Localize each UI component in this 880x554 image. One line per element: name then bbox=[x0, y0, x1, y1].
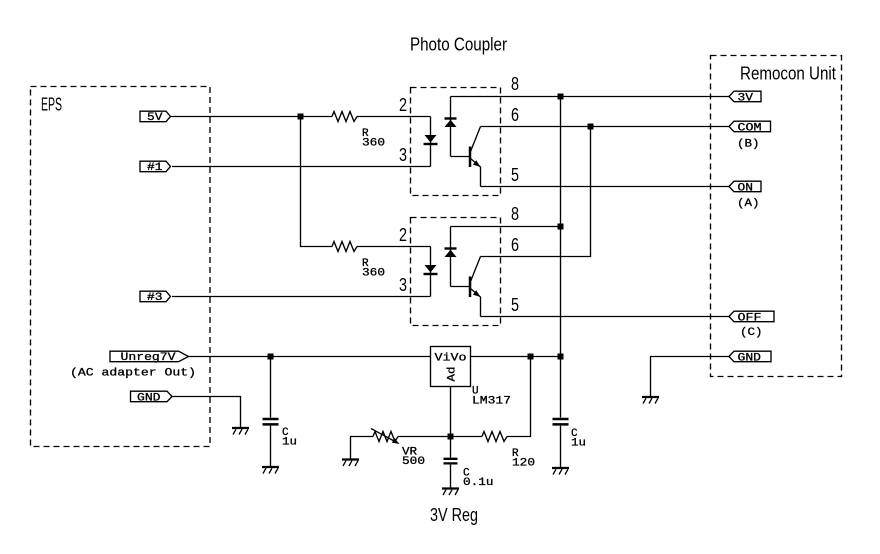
capacitor C1 bbox=[263, 357, 279, 467]
svg-text:(AC adapter Out): (AC adapter Out) bbox=[70, 368, 196, 380]
wire U1 pin6 to COM bbox=[481, 126, 730, 128]
svg-text:5: 5 bbox=[511, 295, 519, 315]
svg-text:ViVo: ViVo bbox=[435, 353, 467, 365]
svg-text:5V: 5V bbox=[147, 112, 163, 124]
wire D1b to Q1 base bbox=[451, 156, 470, 158]
svg-text:#3: #3 bbox=[147, 292, 163, 304]
wire Unreg7V to LM317 Vi bbox=[189, 356, 431, 358]
wire GND Remocon to ground bbox=[651, 357, 730, 397]
svg-text:1u: 1u bbox=[571, 438, 586, 450]
label R3 bbox=[512, 448, 535, 470]
wire 5V junction to R2 bbox=[301, 117, 333, 247]
label R1 bbox=[362, 128, 385, 150]
connector COM bbox=[729, 121, 771, 134]
wire LM317 Adj down bbox=[450, 387, 452, 437]
svg-text:Unreg7V: Unreg7V bbox=[121, 352, 176, 364]
svg-text:120: 120 bbox=[512, 458, 535, 470]
connector 5V bbox=[140, 111, 171, 124]
wire R2 to LED2 bbox=[357, 246, 431, 248]
connector ON bbox=[729, 181, 761, 194]
svg-text:(C): (C) bbox=[740, 327, 763, 339]
resistor R3 bbox=[482, 432, 507, 442]
wire R1 to LED1 bbox=[357, 116, 431, 118]
svg-text:6: 6 bbox=[511, 105, 519, 125]
connector 3V bbox=[729, 91, 761, 104]
connector GND (Remocon) bbox=[729, 351, 771, 364]
svg-text:Ad: Ad bbox=[447, 367, 459, 382]
label R2 bbox=[362, 258, 385, 280]
svg-text:OFF: OFF bbox=[738, 313, 762, 325]
capacitor C3 bbox=[444, 437, 458, 489]
svg-text:3: 3 bbox=[399, 145, 407, 165]
svg-text:COM: COM bbox=[738, 123, 762, 135]
node U1 pin6 junction bbox=[588, 124, 594, 130]
node 3V bus junction bbox=[558, 354, 564, 360]
transistor Q1 bbox=[470, 127, 481, 187]
node U2 pin8 junction bbox=[558, 224, 564, 230]
ground (C3) bbox=[442, 489, 459, 496]
photocoupler U1 box bbox=[411, 88, 501, 196]
svg-text:#1: #1 bbox=[147, 162, 163, 174]
resistor R2 bbox=[332, 242, 357, 252]
transistor Q2 bbox=[470, 257, 481, 317]
wire U2 pin6 to COM bus bbox=[481, 127, 591, 257]
svg-text:GND: GND bbox=[137, 393, 161, 405]
node Adj junction bbox=[448, 434, 454, 440]
node C1 junction bbox=[268, 354, 274, 360]
connector #3 bbox=[140, 291, 171, 304]
diode D1b (U1 internal) bbox=[445, 97, 457, 157]
node U1 pin8 junction bbox=[558, 94, 564, 100]
wire GND EPS to ground bbox=[172, 397, 241, 428]
wire U2 pin8 to 3V bus bbox=[451, 226, 561, 228]
svg-text:EPS: EPS bbox=[41, 95, 62, 115]
ground (EPS GND) bbox=[232, 428, 249, 435]
svg-text:8: 8 bbox=[511, 204, 519, 224]
wire #3 to LED2 bbox=[172, 296, 431, 298]
resistor R1 bbox=[332, 112, 357, 122]
connector #1 bbox=[140, 161, 171, 174]
svg-text:500: 500 bbox=[402, 456, 425, 468]
svg-text:3: 3 bbox=[399, 275, 407, 295]
svg-text:5: 5 bbox=[511, 165, 519, 185]
svg-text:6: 6 bbox=[511, 235, 519, 255]
wire R3 to Vo node bbox=[507, 357, 531, 437]
wire D2b to Q2 base bbox=[451, 286, 470, 288]
ground (C2) bbox=[552, 468, 569, 475]
EPS module box bbox=[31, 87, 211, 447]
svg-text:Remocon Unit: Remocon Unit bbox=[740, 64, 836, 84]
ground (Remocon GND) bbox=[642, 397, 659, 404]
svg-text:360: 360 bbox=[362, 138, 385, 150]
svg-text:3V: 3V bbox=[738, 93, 754, 105]
diode D2b (U2 internal) bbox=[445, 227, 457, 287]
svg-text:1u: 1u bbox=[282, 437, 297, 449]
ground (VR1) bbox=[342, 460, 359, 467]
Remocon Unit box bbox=[711, 56, 842, 377]
wire U1 pin5 to ON bbox=[481, 186, 730, 188]
connector Unreg7V bbox=[110, 351, 189, 364]
svg-text:LM317: LM317 bbox=[472, 396, 511, 408]
svg-text:Photo Coupler: Photo Coupler bbox=[410, 35, 507, 55]
wire LM317 Vo to 3V bus bbox=[471, 356, 561, 358]
photocoupler U2 box bbox=[411, 218, 501, 326]
LED D2 bbox=[424, 247, 438, 297]
svg-text:3V Reg: 3V Reg bbox=[430, 505, 478, 525]
connector OFF bbox=[729, 311, 774, 324]
ground (C1) bbox=[262, 467, 279, 474]
potentiometer VR1 bbox=[371, 429, 400, 445]
svg-text:(A): (A) bbox=[737, 198, 760, 210]
LED D1 bbox=[424, 117, 438, 167]
node: 5V junction bbox=[298, 114, 304, 120]
label U3 bbox=[472, 386, 511, 408]
wire #1 to LED1 bbox=[172, 166, 431, 168]
svg-text:ON: ON bbox=[738, 183, 754, 195]
label C3 bbox=[463, 468, 494, 490]
svg-text:(B): (B) bbox=[737, 139, 760, 151]
node Vo junction bbox=[528, 354, 534, 360]
label C2 bbox=[571, 428, 586, 450]
wire U1 pin8 to 3V bbox=[451, 96, 730, 98]
svg-text:2: 2 bbox=[399, 225, 407, 245]
svg-text:GND: GND bbox=[738, 353, 762, 365]
label C1 bbox=[282, 427, 297, 449]
regulator U3 LM317 bbox=[431, 347, 471, 387]
connector GND (EPS) bbox=[131, 391, 173, 404]
wire VR1 to Adj node bbox=[398, 436, 451, 438]
svg-text:2: 2 bbox=[399, 95, 407, 115]
capacitor C2 bbox=[553, 357, 569, 468]
label VR1 bbox=[402, 447, 425, 469]
3V bus vertical bbox=[560, 97, 562, 357]
svg-text:0.1u: 0.1u bbox=[463, 477, 494, 489]
wire VR1 to ground bbox=[351, 437, 374, 460]
svg-text:8: 8 bbox=[511, 74, 519, 94]
wire 5V to R1 bbox=[171, 116, 333, 118]
wire U2 pin5 to OFF bbox=[481, 316, 730, 318]
wire Adj node to R3 bbox=[451, 436, 483, 438]
svg-text:360: 360 bbox=[362, 268, 385, 280]
